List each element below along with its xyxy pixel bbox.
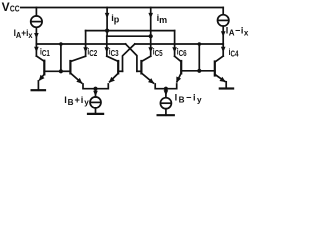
label iC2 [87, 46, 97, 58]
wire below IA-ix [222, 26, 224, 44]
node dot R top [198, 42, 202, 46]
label im [157, 13, 168, 25]
label ip [111, 13, 120, 25]
arrow im [148, 13, 153, 19]
svg-text:IA−ix: IA−ix [226, 25, 249, 37]
ground IB+iy bar [88, 113, 103, 115]
wire right emitter rail [155, 84, 177, 89]
wire left tail lead [95, 89, 97, 97]
svg-text:iC2: iC2 [87, 46, 97, 58]
wire node M horizontal y36 [107, 35, 151, 37]
wire below IB+iy [95, 108, 97, 114]
svg-text:CC: CC [10, 4, 20, 14]
wire ip lead [106, 8, 108, 31]
arrow ip [105, 13, 110, 19]
svg-text:IA+ix: IA+ix [14, 28, 34, 40]
wire iC5 branch [150, 36, 152, 56]
node dot right tail [164, 87, 168, 91]
wire Q4 emitter stub [225, 82, 227, 89]
arrow iC3 [105, 47, 110, 53]
arrow iC4 [221, 47, 226, 53]
wire VCC rail [21, 7, 223, 9]
ground Q4 bar [220, 87, 233, 89]
node dot L bases [59, 69, 63, 73]
label iC6 [177, 46, 187, 58]
current source IA+ix [31, 16, 42, 27]
label IB+iy [64, 95, 89, 107]
arrow IB-iy current [164, 90, 169, 96]
current source IB+iy [90, 97, 101, 108]
wire node R horizontal y44 [135, 43, 223, 45]
wire iC2 branch [85, 31, 87, 57]
arrow iC2 [83, 47, 88, 53]
wire im lead [150, 8, 152, 37]
wire below IA+ix [35, 27, 37, 44]
arrow iC1 [34, 47, 39, 53]
wire node L horizontal y44 [36, 43, 125, 45]
node VCC label [2, 0, 20, 14]
arrow IA-ix current [221, 31, 226, 37]
wire Q1 emitter stub [37, 81, 39, 90]
wire X left diagonal (node L to Q5 base) [126, 44, 137, 71]
wire bases vertical right [198, 44, 200, 71]
svg-text:im: im [157, 13, 168, 25]
wire ip to iC3 connector [106, 31, 108, 37]
ground Q1 bar [32, 89, 45, 91]
label IA-ix [226, 25, 249, 37]
label iC3 [109, 46, 119, 58]
label iC5 [153, 46, 163, 58]
node dot left tail [93, 87, 97, 91]
wire below IB-iy [165, 109, 167, 116]
node dot L top [59, 42, 63, 46]
label IA+ix [14, 28, 34, 40]
wire bases vertical left [60, 44, 62, 71]
svg-text:iC4: iC4 [229, 47, 240, 59]
node dot P [105, 29, 109, 33]
current source IA-ix [218, 15, 229, 26]
svg-text:IB−iy: IB−iy [175, 92, 203, 104]
wire iC4 branch [222, 44, 224, 56]
node dot M [149, 34, 153, 38]
wire left emitter rail [83, 84, 108, 89]
label IB-iy [175, 92, 203, 104]
wire iC3 branch [106, 36, 108, 56]
node dot R bases [197, 69, 201, 73]
transistor Q6 [175, 56, 200, 83]
transistor Q3 [107, 56, 123, 83]
svg-text:ip: ip [111, 13, 120, 25]
wire right source lead [222, 8, 224, 15]
wire X right diagonal (node R to Q3 base) [123, 44, 135, 71]
arrow IA+ix current [34, 33, 39, 39]
current source IB-iy [160, 98, 171, 109]
arrow iC5 [148, 47, 153, 53]
label iC1 [40, 46, 50, 58]
svg-text:iC5: iC5 [153, 46, 163, 58]
svg-text:iC1: iC1 [40, 46, 50, 58]
svg-text:iC6: iC6 [177, 46, 187, 58]
wire right tail lead [165, 89, 167, 98]
svg-text:V: V [2, 0, 10, 14]
wire iC6 branch [174, 31, 176, 57]
wire node P horizontal y30 [86, 30, 175, 32]
ground IB-iy bar [158, 114, 174, 116]
transistor Q2 [61, 56, 86, 83]
svg-text:IB+iy: IB+iy [64, 95, 89, 107]
label iC4 [229, 47, 240, 59]
transistor Q1 [36, 56, 61, 81]
svg-text:iC3: iC3 [109, 46, 119, 58]
transistor Q4 [199, 56, 225, 82]
wire left source lead [35, 8, 37, 16]
arrow IB+iy current [93, 91, 98, 97]
arrow iC6 [172, 47, 177, 53]
transistor Q5 [137, 56, 154, 83]
wire iC1 branch [35, 44, 37, 56]
